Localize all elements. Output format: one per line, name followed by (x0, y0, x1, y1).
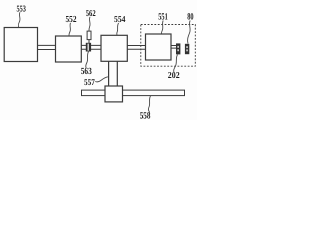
wire 551-202 double line (171, 46, 177, 49)
box 553 (4, 28, 37, 62)
dashed box 551 (141, 25, 196, 67)
box 554 (101, 35, 127, 61)
leader 551 (161, 21, 163, 34)
wire 554-551 double line (127, 46, 146, 50)
svg-text:553: 553 (17, 3, 27, 13)
svg-text:80: 80 (187, 11, 193, 22)
leg left 554-557 (108, 61, 110, 86)
leader 552 (69, 23, 71, 36)
leader 562 (89, 17, 90, 31)
wire 563-554 double line (91, 45, 102, 49)
leader 558 (148, 96, 150, 112)
svg-text:557: 557 (84, 77, 95, 87)
component 563 dark square (86, 43, 91, 52)
component 80 dark element (185, 44, 189, 54)
box inside 551 (146, 34, 172, 60)
leader 557 (95, 77, 108, 82)
leader 554 (117, 23, 119, 35)
svg-text:551: 551 (158, 13, 168, 23)
wire 552-563 double line (81, 45, 87, 49)
svg-text:558: 558 (140, 111, 151, 120)
component 562 small rect (87, 31, 91, 39)
svg-text:202: 202 (168, 70, 180, 80)
wire 562-563 stub (88, 40, 90, 44)
svg-text:562: 562 (86, 8, 96, 18)
box 552 (56, 36, 82, 62)
leader 553 (18, 12, 20, 27)
svg-text:563: 563 (81, 67, 92, 77)
leader 80 (188, 21, 191, 44)
svg-text:552: 552 (66, 14, 77, 24)
rail 558 (82, 90, 185, 96)
leader 563 (86, 52, 89, 68)
box 557 (105, 86, 123, 102)
wire 553-552 double line (37, 45, 56, 49)
component 202 dark element (176, 43, 180, 54)
svg-text:554: 554 (114, 14, 126, 24)
leg right 554-557 (116, 61, 118, 86)
leader 202 (174, 55, 178, 72)
